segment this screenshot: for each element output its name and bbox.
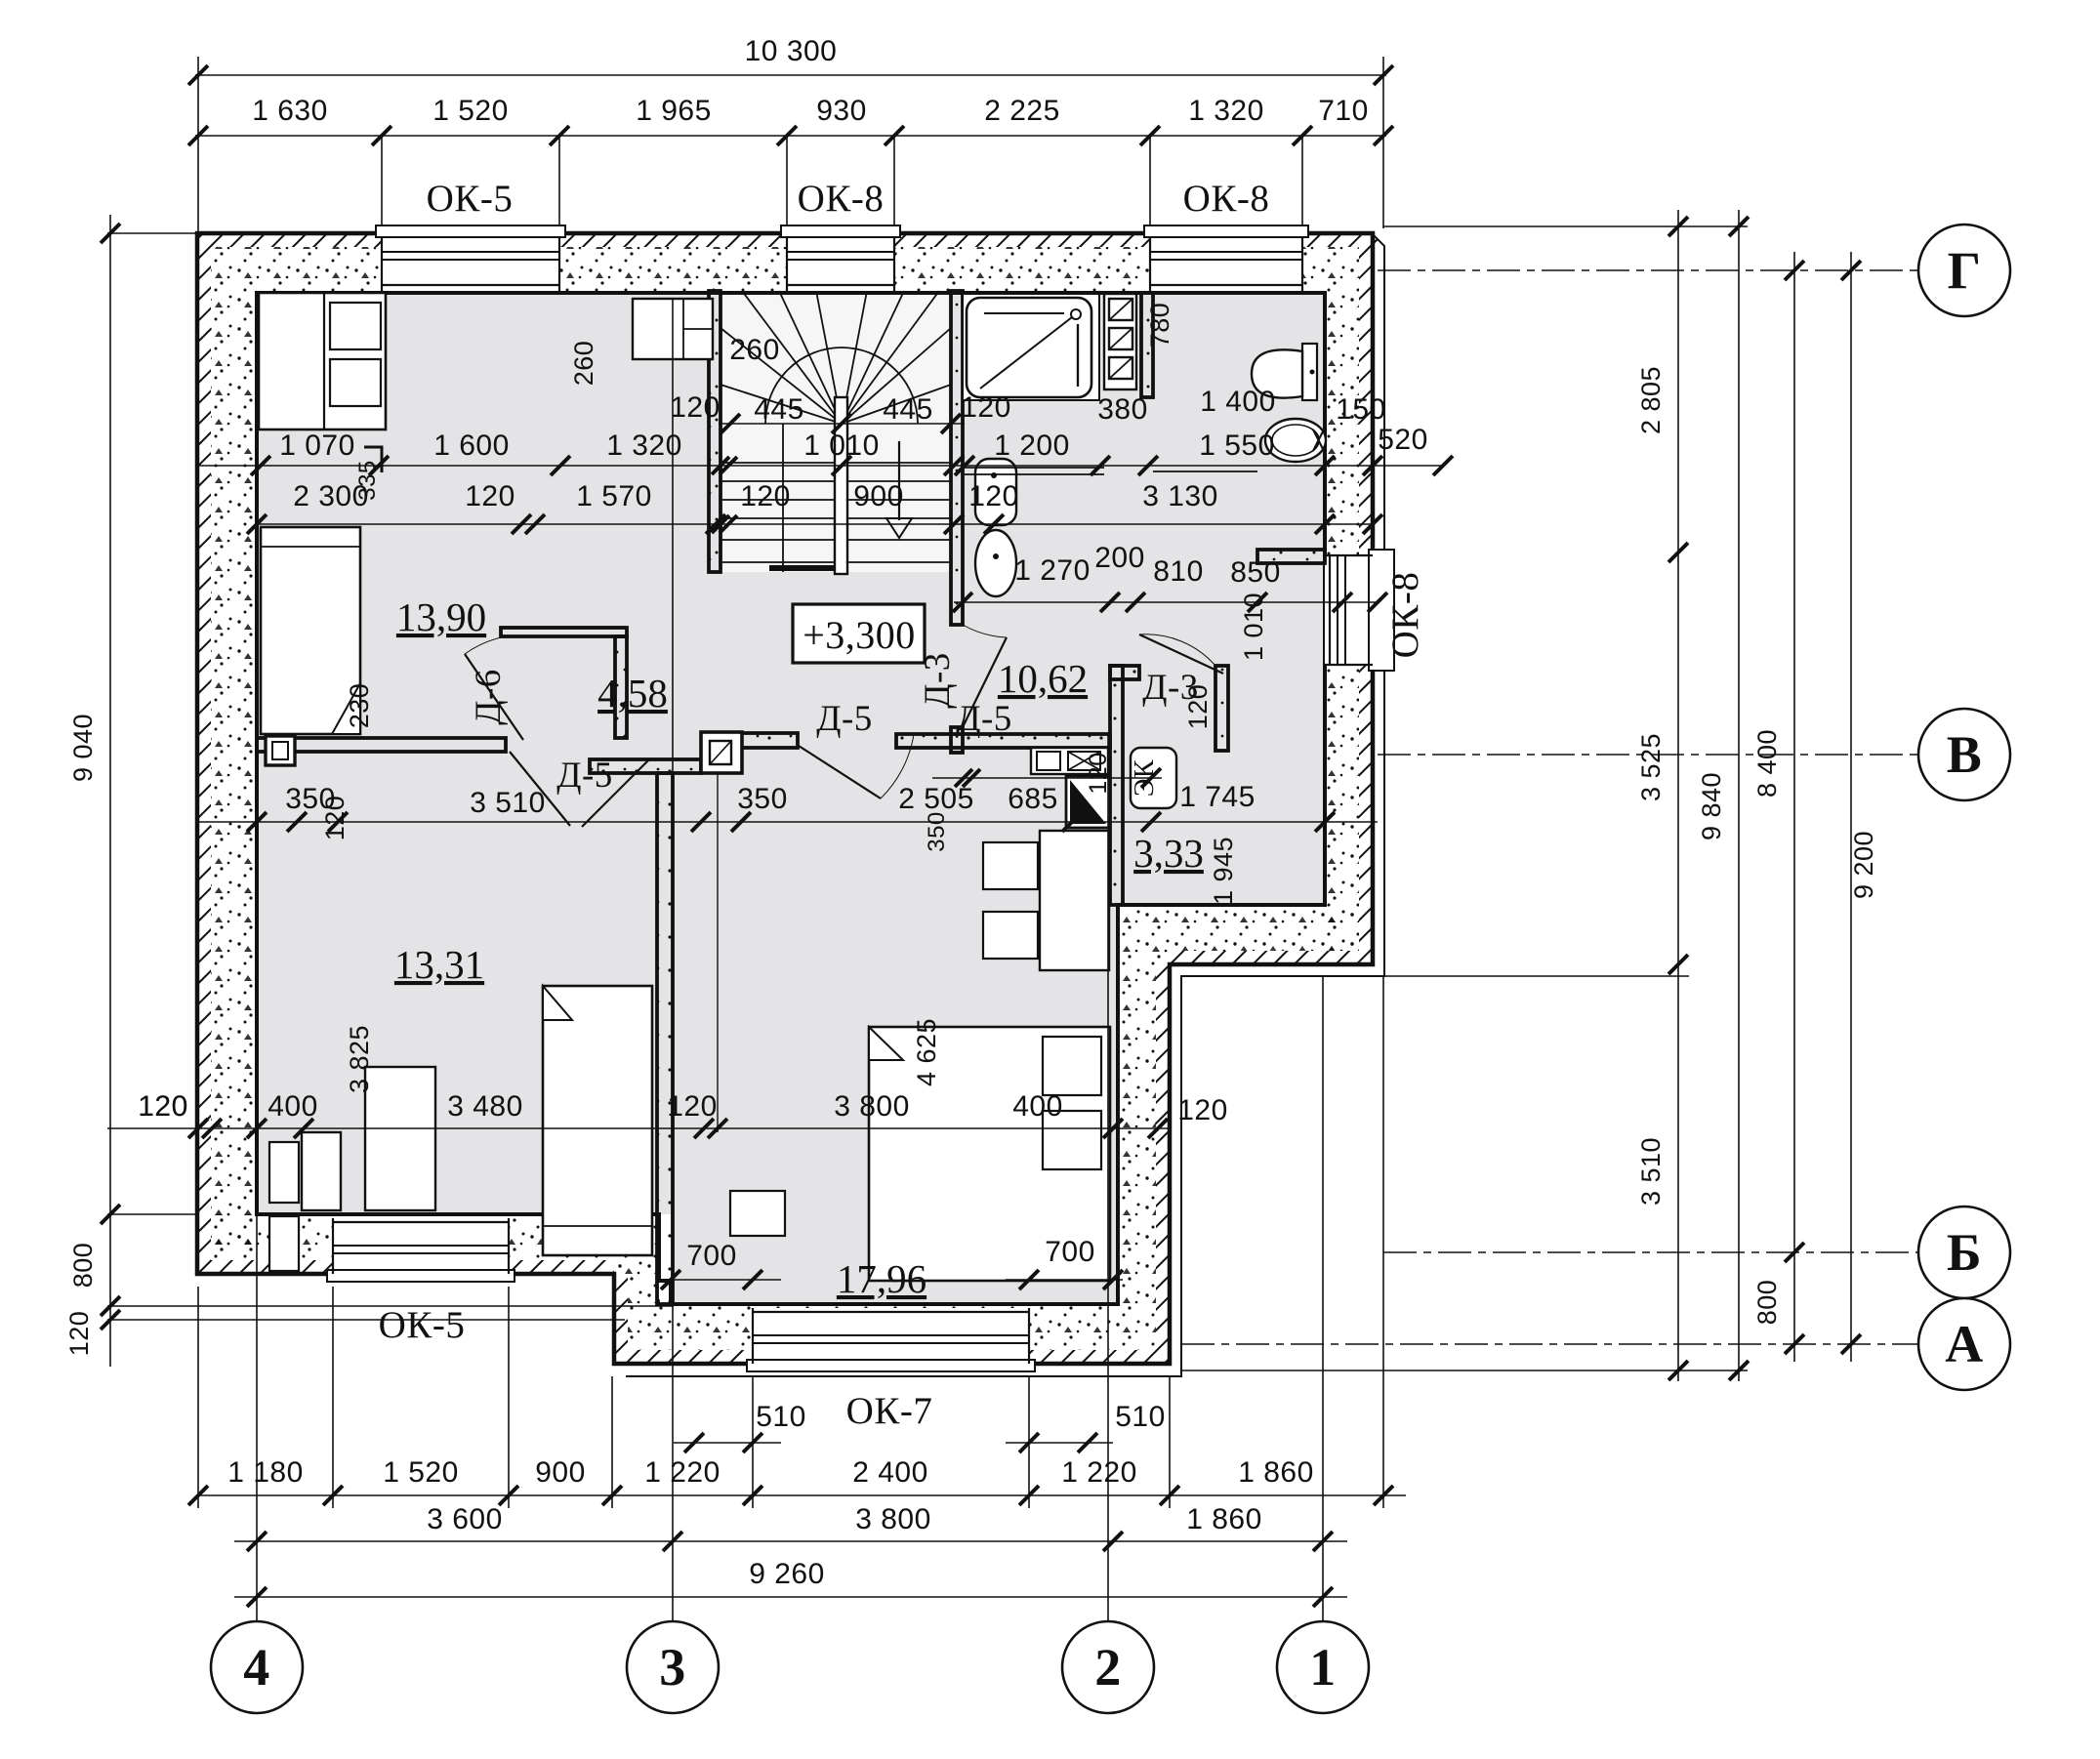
window OK-7 bay [753,1308,1029,1364]
svg-text:13,31: 13,31 [394,942,484,987]
svg-text:2 225: 2 225 [984,95,1060,127]
chair 2 room 17,96 [983,912,1038,959]
wall room 3,33 west [1110,666,1123,905]
building outer boundary [197,233,1373,1364]
svg-text:400: 400 [1012,1090,1063,1123]
door D-5 leaf into 17,96 [799,746,881,798]
landing threshold line [769,565,845,571]
stairs: flight divider lines [782,424,784,572]
chain row y1636 [234,1596,1347,1598]
svg-text:3 130: 3 130 [1142,480,1218,512]
stairwell floor [721,293,951,572]
stairs: winder fan [721,385,842,424]
svg-text:120: 120 [667,1090,718,1123]
double bed room 17,96 [869,1027,1110,1281]
window OK-8 top [787,237,894,291]
svg-text:17,96: 17,96 [837,1256,926,1301]
svg-text:230: 230 [345,683,374,729]
wall room 3,33 north stub [1110,666,1139,679]
svg-text:1 220: 1 220 [644,1456,721,1489]
exterior wall bay bottom band [660,1304,1113,1364]
axis circle 3 [627,1621,719,1713]
wall row D segment B low [590,759,701,773]
svg-text:3,33: 3,33 [1133,831,1204,876]
svg-text:510: 510 [756,1401,806,1433]
svg-text:1 550: 1 550 [1199,430,1275,462]
chain row y1579 [234,1540,1347,1542]
shower tray [967,298,1091,397]
svg-text:710: 710 [1318,95,1369,127]
svg-text:800: 800 [68,1243,98,1289]
svg-text:4,58: 4,58 [597,671,668,716]
svg-text:350: 350 [924,811,950,852]
svg-text:120: 120 [961,391,1011,424]
wall bathroom/WC divider [1141,293,1153,397]
svg-text:200: 200 [1094,542,1145,574]
inner wall faces [257,293,1325,1304]
svg-text:1 745: 1 745 [1179,781,1256,813]
hatch strip mid vertical [1156,964,1170,1364]
svg-text:1 600: 1 600 [433,430,510,462]
svg-text:120: 120 [968,480,1019,512]
axis V line [1378,754,1917,756]
axis circle A [1918,1298,2010,1390]
dimension chain 10 300 [195,74,1386,76]
axis G line [1378,269,1917,271]
exterior wall mid vertical band [1113,964,1170,1364]
exterior wall left band [197,293,257,1274]
svg-text:1 010: 1 010 [1239,593,1268,661]
svg-text:120: 120 [1177,1094,1228,1126]
svg-text:4 625: 4 625 [912,1018,941,1086]
stool room 17,96 [730,1191,785,1236]
svg-text:Д-5: Д-5 [816,699,873,739]
svg-text:ОК-5: ОК-5 [379,1304,466,1346]
svg-text:520: 520 [1378,424,1428,456]
svg-text:1 965: 1 965 [636,95,712,127]
wall end bracket [364,447,382,472]
chair 1 room 13,31 [269,1142,299,1203]
chain row y1156 [107,1127,1170,1129]
svg-text:Д-3: Д-3 [918,652,958,709]
svg-text:3 800: 3 800 [834,1090,910,1123]
ventilation shaft [1066,776,1110,828]
svg-text:ОК-5: ОК-5 [427,178,514,220]
stair sub chain [719,423,965,425]
axis circle V [1918,709,2010,800]
wall row D segment B2 [739,733,798,748]
chain row y477 [198,465,1443,467]
extension line x735 [717,773,719,1132]
chain 700s y1311 [660,1279,781,1281]
axis circle G [1918,225,2010,316]
svg-text:1 200: 1 200 [994,430,1070,462]
extension lines top [197,57,199,233]
desk room 17,96 [1040,831,1109,970]
svg-text:800: 800 [1752,1280,1782,1326]
hatch strip bottom-left [197,1260,614,1274]
svg-text:1 860: 1 860 [1238,1456,1314,1489]
svg-text:9 840: 9 840 [1697,772,1726,840]
svg-text:1 180: 1 180 [227,1456,304,1489]
svg-text:3: 3 [659,1638,686,1697]
svg-text:ОК-8: ОК-8 [1183,178,1270,220]
svg-text:1 630: 1 630 [252,95,328,127]
hatch strip left [197,247,211,1274]
axis A line [1181,1343,1917,1345]
svg-text:9 040: 9 040 [68,714,98,782]
dimension chain top segments [195,135,1386,137]
hatch strip bay bottom [625,1350,1170,1364]
svg-text:3 800: 3 800 [855,1503,931,1535]
door D-6 leaf [465,654,523,740]
svg-text:Г: Г [1948,241,1982,300]
hatch strip step [614,1274,628,1364]
svg-text:1 860: 1 860 [1186,1503,1262,1535]
window OK-5 bottom-left [333,1218,509,1274]
bidet [1265,419,1326,462]
svg-text:120: 120 [320,796,350,841]
svg-text:10 300: 10 300 [745,35,838,67]
svg-text:850: 850 [1230,556,1281,589]
right vertical chains [1677,210,1679,1381]
svg-text:2 400: 2 400 [852,1456,928,1489]
chair 1 room 17,96 [983,842,1038,889]
svg-text:3 600: 3 600 [427,1503,503,1535]
svg-text:445: 445 [754,393,804,426]
svg-text:120: 120 [138,1090,188,1123]
svg-text:685: 685 [1008,783,1058,815]
svg-text:13,90: 13,90 [396,594,486,639]
extension lines bottom [197,1287,199,1508]
svg-text:780: 780 [1145,303,1174,348]
column in wall B [701,732,742,773]
svg-text:445: 445 [883,393,933,426]
chain bathroom lower y617 [954,601,1378,603]
exterior wall right band [1325,293,1373,964]
axis circle B [1918,1207,2010,1298]
washbasin upper [975,459,1016,525]
svg-text:380: 380 [1097,393,1148,426]
wall room 13,90 south-east [501,628,627,636]
svg-text:2 805: 2 805 [1636,366,1666,434]
svg-text:9 200: 9 200 [1849,831,1878,899]
stairs: direction arrow [898,441,900,520]
svg-text:810: 810 [1153,555,1204,588]
washbasin lower [975,530,1016,596]
svg-text:2: 2 [1094,1638,1122,1697]
svg-text:+3,300: +3,300 [803,613,916,657]
wall row D segment C [896,734,1110,748]
bed room 13,90 [261,527,360,734]
wall niche at OK-8 side window [1257,550,1325,563]
chain 510s y1478 [674,1442,781,1444]
extension lines right [1383,225,1748,227]
svg-text:1 270: 1 270 [1014,554,1091,587]
svg-text:510: 510 [1115,1401,1166,1433]
svg-text:1 520: 1 520 [383,1456,459,1489]
closet top right of room 13,90 [633,299,713,359]
svg-text:8 400: 8 400 [1752,729,1782,798]
svg-text:260: 260 [729,334,780,366]
wall stairwell left [709,291,721,572]
svg-text:Д-5: Д-5 [556,756,613,796]
hatch strip right [1359,247,1373,964]
wall stub below door D-3 [951,727,963,753]
wall vertical hall west [615,636,627,738]
svg-text:2 505: 2 505 [898,783,974,815]
window OK-8 top second [1150,237,1302,291]
axis circle 4 [211,1621,303,1713]
svg-text:400: 400 [268,1090,318,1123]
bed room 13,31 [543,986,652,1255]
left vertical chain [109,215,111,1367]
svg-text:10,62: 10,62 [998,656,1088,701]
wardrobe room 13,90 [259,293,386,430]
stairs: straight treads [721,462,951,464]
door D-3 leaf into 3,33 [1139,634,1223,674]
chair 2 room 13,31 [269,1216,299,1271]
bathroom shelf with washers [1104,294,1136,389]
svg-text:В: В [1947,725,1983,784]
exterior wall bottom-left band [197,1214,614,1274]
svg-text:1 945: 1 945 [1209,837,1238,905]
svg-text:120: 120 [465,480,515,512]
wall row D segment A [257,738,506,752]
svg-text:1 320: 1 320 [606,430,682,462]
svg-text:260: 260 [569,341,598,387]
svg-text:3 825: 3 825 [345,1025,374,1093]
svg-text:ОК-8: ОК-8 [1384,572,1426,659]
svg-text:335: 335 [354,460,381,501]
svg-text:Б: Б [1947,1223,1982,1282]
hatch strip right-wing bottom [1170,951,1359,964]
door D-5 leaf center [582,759,649,827]
wall pier at door D-3 [1215,666,1228,751]
svg-text:1 010: 1 010 [803,430,880,462]
chain row y1532 [198,1494,1406,1496]
svg-text:120: 120 [64,1311,94,1357]
shadow offset line right/bottom [626,234,1384,1376]
svg-text:700: 700 [686,1240,737,1272]
svg-text:3 510: 3 510 [1636,1137,1666,1206]
svg-text:А: А [1945,1315,1984,1373]
svg-text:ОК-7: ОК-7 [846,1390,933,1432]
svg-text:1 400: 1 400 [1200,386,1276,418]
desk room 13,31 [365,1067,435,1210]
svg-text:930: 930 [816,95,867,127]
svg-text:900: 900 [535,1456,586,1489]
svg-text:Д-6: Д-6 [469,669,509,725]
toilet [1302,344,1317,400]
door D-3 leaf corridor to 10,62 [963,637,1007,727]
dresser room 10,62 [1031,748,1108,774]
wall stairwell right / corridor [951,291,963,625]
stairs: newel post [835,397,847,574]
svg-text:Д-3: Д-3 [1142,668,1199,708]
svg-text:1 320: 1 320 [1188,95,1264,127]
axis circle 2 [1062,1621,1154,1713]
svg-text:1 520: 1 520 [432,95,509,127]
svg-text:4: 4 [243,1638,270,1697]
floor fill [257,293,1325,1304]
svg-text:9 260: 9 260 [749,1558,825,1590]
exterior wall right-wing bottom band [1118,905,1373,964]
svg-text:150: 150 [1336,393,1386,426]
svg-text:ОК-8: ОК-8 [798,178,885,220]
hatch strip top [197,233,1378,247]
svg-text:1: 1 [1309,1638,1337,1697]
exterior wall step band [614,1214,660,1364]
svg-text:700: 700 [1045,1236,1095,1268]
bath area boundary lines [963,467,1104,469]
door D-5 leaf into 13,31 [510,752,570,826]
shower enclosure [963,294,1099,400]
svg-text:120: 120 [740,480,791,512]
svg-text:3 525: 3 525 [1636,733,1666,801]
table room 13,31 [302,1132,341,1210]
shaft column in wall A [266,736,295,765]
svg-text:1 570: 1 570 [576,480,652,512]
water heater EK [1131,748,1176,808]
exterior wall top band [197,233,1378,293]
svg-text:350: 350 [737,783,788,815]
axis circle 1 [1277,1621,1369,1713]
axis B line [1383,1251,1917,1253]
chain row y842 [198,821,1378,823]
wall between rooms 13,31 and 17,96 [657,773,673,1304]
chain row y537 [257,523,1373,525]
window OK-5 top [382,237,559,291]
svg-text:3 480: 3 480 [447,1090,523,1123]
svg-text:900: 900 [853,480,904,512]
window OK-8 right side [1325,555,1373,665]
svg-text:3 510: 3 510 [470,787,546,819]
svg-text:Д-5: Д-5 [956,699,1012,739]
svg-text:1 070: 1 070 [279,430,355,462]
svg-text:1 220: 1 220 [1061,1456,1137,1489]
svg-text:120: 120 [670,391,721,424]
elevation mark +3,300 [793,604,925,663]
